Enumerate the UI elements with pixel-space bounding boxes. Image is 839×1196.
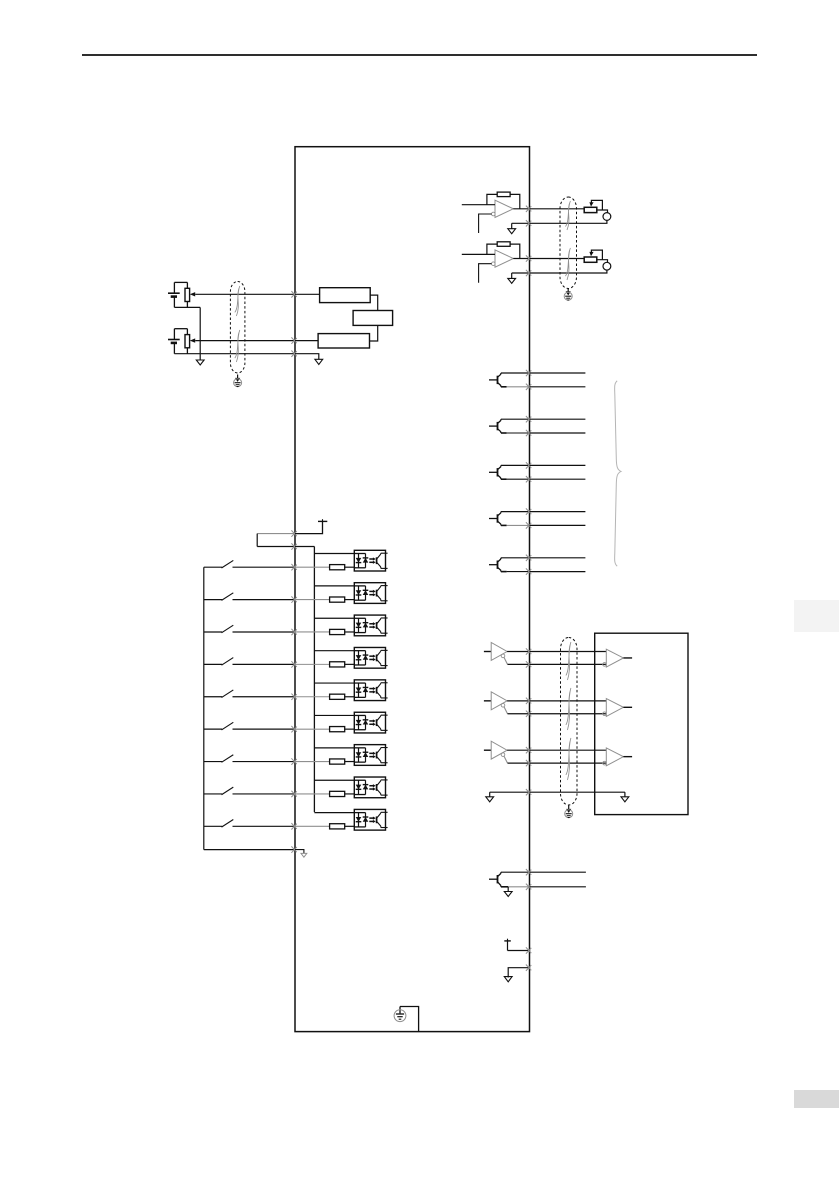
line driver D1 bbox=[484, 643, 508, 665]
pin mark DI return bbox=[291, 846, 296, 852]
pin mark DO6+ bbox=[526, 869, 531, 875]
wire DO4+ external bbox=[530, 511, 586, 513]
twisted pair W1 upper bbox=[235, 286, 240, 316]
measuring resistor Rm1 bbox=[584, 207, 597, 212]
switch S2 bbox=[204, 593, 295, 601]
wire DO4- external bbox=[530, 524, 586, 526]
wire U2 +input bbox=[462, 253, 495, 255]
pin mark DI5 bbox=[291, 694, 296, 700]
switch S1 bbox=[204, 560, 295, 568]
wire ENC3+ internal bbox=[507, 749, 529, 751]
pin mark ENC2+ bbox=[526, 698, 531, 704]
signal ground bbox=[508, 223, 516, 233]
meter M1 bbox=[603, 213, 611, 221]
transistor Q3 bbox=[489, 465, 507, 479]
page tab upper right bbox=[794, 600, 839, 632]
stub PC3 collector bbox=[386, 617, 388, 619]
opto-coupler PC1 bbox=[354, 550, 385, 571]
wire AI2 internal bbox=[295, 340, 318, 342]
internal supply rail symbol bbox=[318, 519, 327, 521]
switch S6 bbox=[204, 722, 295, 730]
resistor Ri8 bbox=[330, 791, 345, 796]
pin mark DI6 bbox=[291, 726, 296, 732]
wire AGND to connector bbox=[200, 353, 295, 355]
transistor Q2 bbox=[489, 419, 507, 433]
internal signal ground small bbox=[301, 853, 307, 857]
stub PC9 collector bbox=[386, 811, 388, 813]
resistor R3 bbox=[318, 334, 369, 348]
wire ENC2+ external bbox=[530, 700, 607, 702]
pin mark DO5- bbox=[526, 568, 531, 574]
wire Ri4 to opto bbox=[345, 663, 355, 665]
stub PC4 emitter bbox=[386, 665, 388, 667]
wire DO2+ external bbox=[530, 418, 586, 420]
line driver D2 bbox=[484, 692, 508, 714]
pin mark DO6- bbox=[526, 884, 531, 890]
line driver D3 bbox=[484, 741, 508, 763]
wire ENC3- external bbox=[530, 762, 607, 764]
wire DO3 collector bbox=[501, 464, 530, 466]
encoder receiver box bbox=[595, 633, 688, 814]
pin mark ground bbox=[526, 965, 531, 971]
wire U1 output bbox=[513, 208, 529, 210]
opto-coupler PC8 bbox=[354, 777, 385, 798]
resistor Ri7 bbox=[330, 759, 345, 764]
switch S9 bbox=[204, 820, 295, 828]
resistor Ri3 bbox=[330, 629, 345, 634]
resistor Ri9 bbox=[330, 824, 345, 829]
resistor Ri4 bbox=[330, 662, 345, 667]
wire DO1 collector bbox=[501, 372, 530, 374]
wire DO6- external bbox=[530, 886, 586, 888]
pin mark 24V bbox=[291, 530, 296, 536]
wire 24V pin bbox=[257, 533, 295, 535]
transistor Q1 bbox=[489, 373, 507, 387]
resistor Ri2 bbox=[330, 597, 345, 602]
stub PC9 emitter bbox=[386, 827, 388, 829]
line receiver RX3 bbox=[603, 748, 632, 766]
stub PC5 emitter bbox=[386, 697, 388, 699]
wire Ri6 to opto bbox=[345, 728, 355, 730]
wire Ri9 to opto bbox=[345, 825, 355, 827]
analog ground bbox=[196, 354, 204, 365]
pin mark GND1 bbox=[526, 220, 531, 226]
wire meter M2 bottom bbox=[606, 270, 608, 273]
pin mark ENC3- bbox=[526, 760, 531, 766]
wire DO6- internal bbox=[508, 886, 529, 888]
wire R1 to R2 bbox=[370, 295, 378, 310]
wire encoder ground external left bbox=[490, 791, 530, 793]
wire DO5+ external bbox=[530, 557, 586, 559]
pin mark DI1 bbox=[291, 564, 296, 570]
pin mark DO4- bbox=[526, 522, 531, 528]
pin mark ENC1- bbox=[526, 661, 531, 667]
stub PC2 collector bbox=[386, 585, 388, 587]
pin mark MON1 bbox=[526, 206, 531, 212]
opto-coupler PC6 bbox=[354, 712, 385, 733]
page tab lower right bbox=[794, 1090, 839, 1108]
wire DO4 emitter bbox=[507, 524, 530, 526]
battery B2 bbox=[168, 329, 180, 354]
resistor Rf2 bbox=[487, 242, 520, 259]
pin mark ENC3+ bbox=[526, 747, 531, 753]
transistor Q4 bbox=[489, 512, 507, 526]
wire ENC3- internal bbox=[508, 762, 530, 764]
chassis earth symbol bbox=[394, 1007, 406, 1022]
pin mark DI8 bbox=[291, 791, 296, 797]
wire bus to opto PC2 bbox=[314, 585, 354, 587]
wire DI7 to resistor bbox=[295, 761, 330, 763]
wire switch common bus bbox=[203, 567, 205, 849]
stub PC5 collector bbox=[386, 682, 388, 684]
twisted pair W3 pair2 bbox=[566, 688, 571, 730]
shielded cable W2 bbox=[560, 197, 577, 289]
pin mark DO2- bbox=[526, 430, 531, 436]
opto-coupler PC4 bbox=[354, 647, 385, 668]
wire pot bottom bbox=[174, 306, 200, 308]
wire bus to opto PC1 bbox=[314, 553, 354, 555]
switch S8 bbox=[204, 787, 295, 795]
wire U1 -input bbox=[479, 214, 492, 233]
stub PC4 collector bbox=[386, 649, 388, 651]
wire ENC3+ external bbox=[530, 749, 607, 751]
wire MON1 external bbox=[530, 208, 585, 210]
potentiometer VR2 bbox=[174, 329, 195, 354]
pin mark GND enc bbox=[526, 789, 531, 795]
wire analog common bus bbox=[199, 307, 201, 353]
potentiometer VR1 bbox=[174, 282, 195, 307]
wire supply pin bbox=[508, 950, 530, 952]
wire DO5- external bbox=[530, 571, 586, 573]
shield W3 earth bbox=[565, 806, 573, 818]
resistor Rf1 bbox=[487, 192, 520, 209]
wire DI8 to resistor bbox=[295, 793, 330, 795]
encoder ground left bbox=[486, 792, 494, 802]
shield W2 earth bbox=[564, 288, 572, 300]
twisted pair W3 pair3 bbox=[566, 738, 571, 780]
pin mark ENC1+ bbox=[526, 648, 531, 654]
wire bus to opto PC8 bbox=[314, 779, 354, 781]
stub PC3 emitter bbox=[386, 632, 388, 634]
stub PC7 emitter bbox=[386, 762, 388, 764]
pin mark DO3+ bbox=[526, 462, 531, 468]
wire chassis ground bbox=[400, 1007, 419, 1032]
wire DI return internal bbox=[295, 850, 304, 854]
adjust arrow Rm1 bbox=[589, 200, 602, 209]
signal ground pin bbox=[504, 977, 512, 982]
opto-coupler PC5 bbox=[354, 680, 385, 701]
wire Ri2 to opto bbox=[345, 599, 355, 601]
wire bus to opto PC7 bbox=[314, 747, 354, 749]
pin mark DO5+ bbox=[526, 555, 531, 561]
wire COM internal bbox=[295, 546, 314, 548]
switch S4 bbox=[204, 658, 295, 666]
stub PC6 emitter bbox=[386, 729, 388, 731]
internal supply pin symbol bbox=[504, 939, 511, 951]
brace output group bbox=[615, 381, 621, 566]
wire Ri1 to opto bbox=[345, 566, 355, 568]
wire U1 +input bbox=[462, 204, 495, 206]
wire encoder ground external right bbox=[530, 791, 625, 793]
pin mark ENC2- bbox=[526, 711, 531, 717]
wire DO2 collector bbox=[501, 418, 530, 420]
wire DI return bbox=[204, 849, 295, 851]
wire Rm2 to meter bbox=[597, 260, 608, 263]
twisted pair W1 lower bbox=[235, 330, 240, 362]
pin mark AI1 bbox=[291, 291, 296, 297]
wire Rm1 to meter bbox=[597, 210, 608, 213]
wire DO1 emitter bbox=[507, 386, 530, 388]
battery B1 bbox=[168, 282, 180, 307]
wire COM pin jumper bbox=[256, 534, 258, 547]
pin mark DI2 bbox=[291, 596, 296, 602]
resistor R2 bbox=[353, 311, 393, 326]
transistor Q5 bbox=[489, 558, 507, 572]
wire bus to opto PC4 bbox=[314, 650, 354, 652]
shielded cable W3 bbox=[561, 638, 578, 806]
opto-coupler PC9 bbox=[354, 809, 385, 830]
pin mark DI4 bbox=[291, 661, 296, 667]
line receiver RX2 bbox=[603, 699, 632, 717]
wire DO5 collector bbox=[501, 557, 530, 559]
opto-coupler PC2 bbox=[354, 583, 385, 604]
wire DO6+ internal bbox=[501, 871, 530, 873]
stub PC8 emitter bbox=[386, 794, 388, 796]
wire ground pin bbox=[508, 968, 529, 978]
wire DI3 to resistor bbox=[295, 631, 330, 633]
wire DO2- external bbox=[530, 432, 586, 434]
wire ENC1+ internal bbox=[507, 651, 529, 653]
wire ENC1+ external bbox=[530, 651, 607, 653]
wire GND1 external bbox=[530, 222, 608, 224]
wire meter M1 bottom bbox=[606, 220, 608, 223]
wire Ri3 to opto bbox=[345, 631, 355, 633]
wire AI1 internal bbox=[295, 293, 320, 295]
measuring resistor Rm2 bbox=[584, 257, 597, 262]
wire COM pin bbox=[257, 546, 295, 548]
wire DO6+ external bbox=[530, 871, 586, 873]
wire DO3+ external bbox=[530, 464, 586, 466]
pin mark DO2+ bbox=[526, 416, 531, 422]
pin mark DO1- bbox=[526, 384, 531, 390]
internal analog ground bbox=[315, 359, 323, 364]
wire DI1 to resistor bbox=[295, 566, 330, 568]
pin mark AGND bbox=[291, 351, 296, 357]
twisted pair W2 lower bbox=[565, 248, 570, 280]
wire DO3 emitter bbox=[507, 478, 530, 480]
resistor Ri5 bbox=[330, 694, 345, 699]
opto-coupler PC7 bbox=[354, 745, 385, 766]
stub PC8 collector bbox=[386, 779, 388, 781]
signal ground Q6 bbox=[504, 887, 512, 897]
wire bus to opto PC5 bbox=[314, 682, 354, 684]
wire GND1 internal bbox=[512, 222, 530, 224]
wire AGND internal bbox=[295, 354, 319, 360]
resistor R1 bbox=[320, 288, 371, 303]
transistor Q6 bbox=[489, 872, 508, 887]
wire DI common bus bbox=[313, 547, 315, 813]
wire DO1+ external bbox=[530, 372, 586, 374]
stub PC2 emitter bbox=[386, 600, 388, 602]
resistor Ri6 bbox=[330, 727, 345, 732]
wire DO3- external bbox=[530, 478, 586, 480]
stub PC7 collector bbox=[386, 747, 388, 749]
wire DI9 to resistor bbox=[295, 825, 330, 827]
wire GND2 internal bbox=[512, 272, 530, 274]
wire DO1- external bbox=[530, 386, 586, 388]
wire DI4 to resistor bbox=[295, 663, 330, 665]
opto-coupler PC3 bbox=[354, 615, 385, 636]
line receiver RX1 bbox=[603, 649, 632, 667]
header rule bbox=[82, 54, 757, 56]
wire DO4 collector bbox=[501, 511, 530, 513]
wire bus to opto PC9 bbox=[314, 812, 354, 814]
wire 24V internal bbox=[295, 521, 323, 533]
adjust arrow Rm2 bbox=[589, 250, 602, 259]
op-amp U1 bbox=[492, 200, 514, 217]
wire ENC1- external bbox=[530, 663, 607, 665]
wire pot bottom bbox=[174, 353, 200, 355]
stub PC1 collector bbox=[386, 552, 388, 554]
twisted pair W3 pair1 bbox=[566, 642, 571, 680]
wire bus to opto PC6 bbox=[314, 714, 354, 716]
pin mark AI2 bbox=[291, 337, 296, 343]
wire DO5 emitter bbox=[507, 571, 530, 573]
wire GND2 external bbox=[530, 272, 608, 274]
meter M2 bbox=[603, 262, 611, 270]
wire DI6 to resistor bbox=[295, 728, 330, 730]
wire DI2 to resistor bbox=[295, 599, 330, 601]
wire bus to opto PC3 bbox=[314, 617, 354, 619]
wire ENC2- external bbox=[530, 713, 607, 715]
pin mark DI3 bbox=[291, 629, 296, 635]
pin mark COM bbox=[291, 543, 296, 549]
op-amp U2 bbox=[492, 250, 514, 267]
resistor Ri1 bbox=[330, 565, 345, 570]
pin mark MON2 bbox=[526, 255, 531, 261]
pin mark DI7 bbox=[291, 758, 296, 764]
signal ground bbox=[508, 273, 516, 283]
wire wiper to connector bbox=[195, 293, 295, 295]
wire wiper to connector bbox=[195, 340, 295, 342]
wire DI5 to resistor bbox=[295, 696, 330, 698]
pin mark supply bbox=[526, 947, 531, 953]
switch S3 bbox=[204, 625, 295, 633]
wire U2 -input bbox=[479, 264, 492, 283]
twisted pair W2 upper bbox=[565, 201, 570, 230]
wire U2 output bbox=[513, 258, 529, 260]
shield W1 earth bbox=[234, 375, 242, 387]
stub PC6 collector bbox=[386, 714, 388, 716]
wire R2 to R3 bbox=[370, 325, 378, 341]
pin mark GND2 bbox=[526, 270, 531, 276]
wire ENC1- internal bbox=[508, 663, 530, 665]
wire Ri5 to opto bbox=[345, 696, 355, 698]
wire DO2 emitter bbox=[507, 432, 530, 434]
wire ENC2- internal bbox=[508, 713, 530, 715]
wire Ri8 to opto bbox=[345, 793, 355, 795]
wire ENC2+ internal bbox=[507, 700, 529, 702]
servo drive main block outline bbox=[295, 147, 530, 1032]
pin mark DI9 bbox=[291, 823, 296, 829]
wire Ri7 to opto bbox=[345, 761, 355, 763]
switch S5 bbox=[204, 690, 295, 698]
switch S7 bbox=[204, 755, 295, 763]
shielded cable W1 bbox=[230, 282, 245, 374]
wire MON2 external bbox=[530, 258, 585, 260]
pin mark DO3- bbox=[526, 476, 531, 482]
pin mark DO1+ bbox=[526, 370, 531, 376]
stub PC1 emitter bbox=[386, 567, 388, 569]
pin mark DO4+ bbox=[526, 508, 531, 514]
encoder ground right bbox=[621, 792, 629, 802]
